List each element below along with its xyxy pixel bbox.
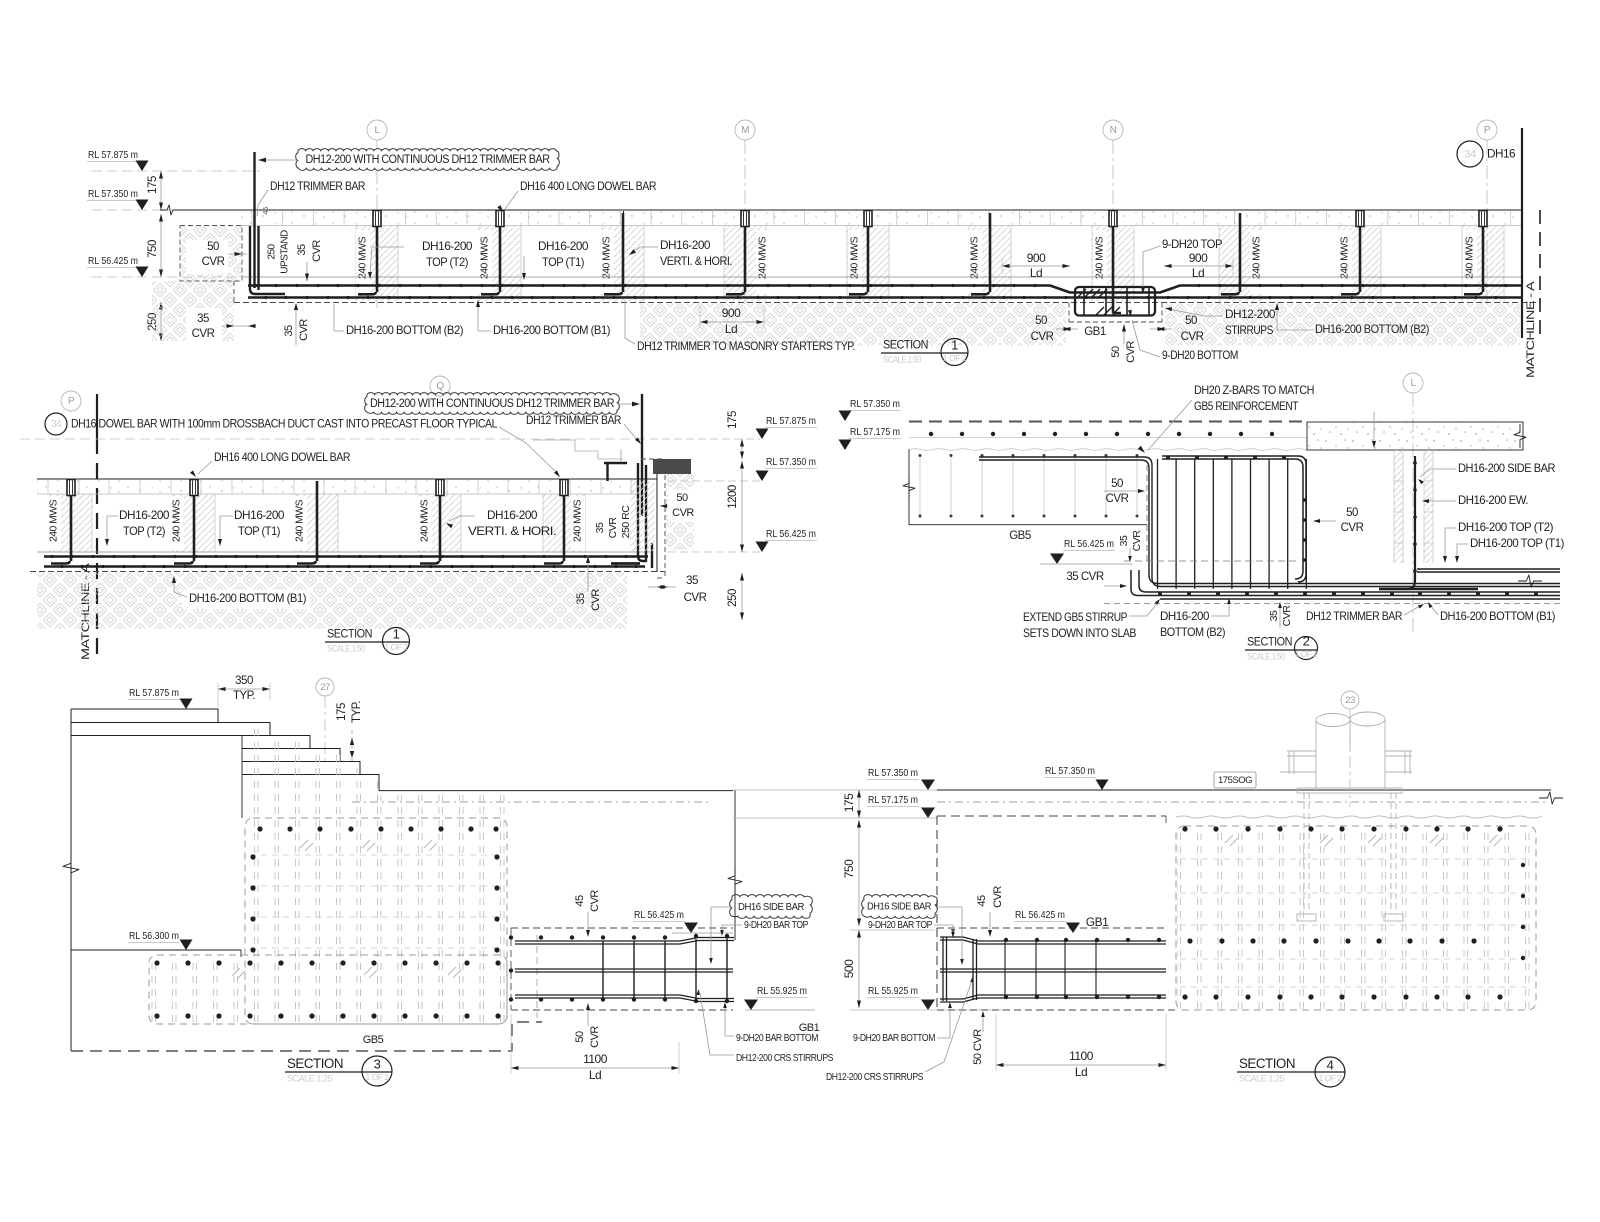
svg-text:1 OF 2: 1 OF 2 <box>943 353 967 363</box>
GB1 bottom bars (s4) <box>940 995 1166 999</box>
grid centerline M <box>744 140 746 308</box>
tall DH12 trimmer (1b) <box>641 394 643 516</box>
grid circle Q <box>430 376 450 396</box>
svg-text:GB5: GB5 <box>363 1034 384 1046</box>
masonry wall starter strips <box>356 226 398 302</box>
svg-text:DH12-200 WITH CONTINUOUS DH12: DH12-200 WITH CONTINUOUS DH12 TRIMMER BA… <box>306 154 550 166</box>
svg-text:DH12 TRIMMER BAR: DH12 TRIMMER BAR <box>526 413 622 427</box>
svg-text:GB1: GB1 <box>1086 915 1109 929</box>
svg-text:9-DH20 TOP: 9-DH20 TOP <box>1162 237 1222 251</box>
svg-text:35: 35 <box>594 522 606 533</box>
lap splice ticks <box>300 840 308 848</box>
svg-text:STIRRUPS: STIRRUPS <box>1225 323 1273 337</box>
level line RL 56.425 <box>92 276 240 278</box>
svg-text:DH16-200: DH16-200 <box>234 508 285 522</box>
svg-text:BOTTOM (B2): BOTTOM (B2) <box>1160 625 1225 639</box>
svg-text:SECTION: SECTION <box>883 338 928 352</box>
footing dots (s4) <box>1182 826 1525 999</box>
svg-text:50 CVR: 50 CVR <box>972 1029 984 1065</box>
svg-text:900: 900 <box>1189 251 1208 265</box>
svg-text:VERTI. & HORI.: VERTI. & HORI. <box>660 254 732 268</box>
stirrup top bar + right bend <box>1162 456 1306 582</box>
svg-text:CVR: CVR <box>1031 331 1054 343</box>
svg-text:SECTION: SECTION <box>1247 635 1292 649</box>
svg-text:240 MWS: 240 MWS <box>573 499 584 542</box>
svg-text:RL 57.350 m: RL 57.350 m <box>850 398 900 410</box>
grid centerline P <box>1486 140 1488 308</box>
svg-text:DH12 TRIMMER BAR: DH12 TRIMMER BAR <box>1306 609 1403 623</box>
svg-text:Ld: Ld <box>725 322 737 336</box>
cloud DH16 SIDE BAR (s3) <box>730 895 813 919</box>
svg-text:DH16 400 LONG DOWEL BAR: DH16 400 LONG DOWEL BAR <box>520 179 657 193</box>
precast floor unit (dark) <box>653 459 691 474</box>
dowel bars with L feet <box>376 227 379 292</box>
svg-text:1: 1 <box>951 337 958 352</box>
svg-text:SCALE.1:50: SCALE.1:50 <box>327 643 365 653</box>
slab soffit dashed <box>234 302 1540 304</box>
svg-text:TYP.: TYP. <box>233 690 255 702</box>
svg-text:DH16 SIDE BAR: DH16 SIDE BAR <box>738 901 805 913</box>
ref circle 34 + dowel note <box>45 413 67 435</box>
ground wavy line (s4) <box>1176 816 1542 818</box>
svg-text:35: 35 <box>686 575 698 587</box>
svg-text:45: 45 <box>574 895 586 907</box>
hardfill hatch under slab (middle) <box>640 304 1066 346</box>
steel column base assembly <box>1280 712 1412 921</box>
svg-text:1100: 1100 <box>583 1052 608 1066</box>
GB5 stirrups light <box>920 455 1137 516</box>
svg-text:SETS DOWN INTO SLAB: SETS DOWN INTO SLAB <box>1023 626 1136 640</box>
grid centerline L <box>376 140 378 149</box>
svg-text:240 MWS: 240 MWS <box>358 236 369 279</box>
left edge (s3) <box>70 709 72 1051</box>
svg-text:SCALE.1:50: SCALE.1:50 <box>883 354 921 364</box>
grid circle 23 <box>1341 691 1359 709</box>
bottom mat B1 bar (bottom layer) <box>248 296 1522 299</box>
dowel bars (1b) <box>70 496 73 561</box>
stirrup set U-hook <box>1131 570 1560 596</box>
level line RL 57.350 <box>92 209 176 211</box>
level line 57.875 (1b) <box>20 438 650 440</box>
bottom mat B2 bar (top layer) <box>248 286 1522 293</box>
dim 250 <box>160 302 162 341</box>
svg-text:DH16-200 TOP (T2): DH16-200 TOP (T2) <box>1458 520 1553 534</box>
svg-text:Ld: Ld <box>1192 266 1204 280</box>
matchline A (section 1b) <box>96 394 98 438</box>
svg-text:DH16-200: DH16-200 <box>119 508 170 522</box>
hardfill hatch (1b) <box>37 573 627 629</box>
9-DH20 top bars marks <box>1078 289 1086 297</box>
slab soffit dashed (1b) <box>30 571 665 573</box>
svg-text:CVR: CVR <box>607 517 619 539</box>
precast floor top line <box>175 209 1522 211</box>
top bars T1 T2 (s2) <box>1417 568 1560 570</box>
svg-text:P: P <box>1484 125 1491 136</box>
svg-text:750: 750 <box>147 240 159 258</box>
dim 175 <box>160 171 162 210</box>
svg-text:240 MWS: 240 MWS <box>1252 236 1263 279</box>
precast floor top line (1b) <box>37 478 657 480</box>
svg-text:175: 175 <box>727 411 739 429</box>
svg-text:35 CVR: 35 CVR <box>1066 571 1103 583</box>
svg-text:SCALE.1:25: SCALE.1:25 <box>287 1073 332 1083</box>
svg-text:240 MWS: 240 MWS <box>1465 236 1476 279</box>
svg-text:DH16-200 TOP (T1): DH16-200 TOP (T1) <box>1470 536 1564 550</box>
grid centerline N <box>1112 140 1114 308</box>
svg-text:SECTION: SECTION <box>1239 1056 1295 1071</box>
svg-text:240 MWS: 240 MWS <box>49 499 60 542</box>
svg-text:RL 57.875 m: RL 57.875 m <box>766 415 816 427</box>
svg-text:9-DH20 BAR TOP: 9-DH20 BAR TOP <box>868 919 932 931</box>
svg-text:RL 56.425 m: RL 56.425 m <box>766 528 816 540</box>
dowel bar 623 thin top <box>623 211 625 228</box>
dim 1100 Ld (s4) <box>996 1064 1166 1066</box>
svg-text:TYP.: TYP. <box>351 701 363 723</box>
svg-text:M: M <box>741 125 749 136</box>
svg-text:50: 50 <box>207 241 219 253</box>
svg-text:TOP (T1): TOP (T1) <box>238 524 280 538</box>
svg-text:DH12 TRIMMER BAR: DH12 TRIMMER BAR <box>270 179 366 193</box>
slab right edge <box>656 459 658 572</box>
svg-text:250: 250 <box>267 243 278 259</box>
GB1 bar dots (s3) <box>509 934 729 1003</box>
dim 1100 Ld (s3) <box>511 1067 679 1069</box>
seating cleat detail <box>604 462 627 464</box>
brick joints (1b) <box>48 480 631 494</box>
rebar dots <box>254 284 1507 299</box>
svg-text:175: 175 <box>147 176 159 194</box>
svg-text:240 MWS: 240 MWS <box>758 236 769 279</box>
svg-text:350: 350 <box>235 675 253 687</box>
svg-text:CVR: CVR <box>1131 530 1143 552</box>
svg-text:240 MWS: 240 MWS <box>602 236 613 279</box>
svg-text:CVR: CVR <box>1125 341 1137 363</box>
slab top surface line <box>242 276 1522 278</box>
svg-text:RL 57.350 m: RL 57.350 m <box>766 456 816 468</box>
svg-text:900: 900 <box>1027 251 1046 265</box>
svg-text:GB5: GB5 <box>1009 530 1031 542</box>
svg-text:DH16-200: DH16-200 <box>1160 609 1210 623</box>
svg-text:DH16: DH16 <box>1487 149 1515 161</box>
svg-text:1 OF 2: 1 OF 2 <box>1319 1073 1343 1083</box>
svg-text:1100: 1100 <box>1069 1049 1094 1063</box>
svg-text:DH16-200 BOTTOM (B1): DH16-200 BOTTOM (B1) <box>1440 609 1555 623</box>
svg-text:DH12-200 WITH CONTINUOUS DH12: DH12-200 WITH CONTINUOUS DH12 TRIMMER BA… <box>370 398 614 410</box>
bottom mat B2 (1b) <box>44 555 648 558</box>
svg-text:35: 35 <box>296 244 308 256</box>
upstand U-bar <box>250 226 285 294</box>
DH16-200 side bar <box>1379 456 1415 589</box>
svg-text:RL 57.875 m: RL 57.875 m <box>129 687 179 699</box>
svg-text:CVR: CVR <box>192 328 215 340</box>
svg-text:240 MWS: 240 MWS <box>970 236 981 279</box>
svg-text:240 MWS: 240 MWS <box>295 499 306 542</box>
cloud note DH12-200 WITH CONTINUOUS DH12 TRIMMER BAR <box>296 149 560 171</box>
svg-text:RL 55.925 m: RL 55.925 m <box>757 985 807 997</box>
SOG top line <box>937 789 1551 791</box>
svg-text:250 RC: 250 RC <box>620 505 632 539</box>
dim 750 <box>160 214 162 277</box>
svg-text:DH16-200: DH16-200 <box>422 239 473 253</box>
svg-text:27: 27 <box>320 682 330 693</box>
slab top surface (1b) <box>37 551 650 553</box>
svg-text:23: 23 <box>1345 695 1355 706</box>
brick joints <box>252 211 1511 225</box>
precast floor (s2) <box>1307 422 1523 450</box>
grid circle L <box>367 120 387 140</box>
svg-text:VERTI. & HORI.: VERTI. & HORI. <box>468 524 556 538</box>
masonry wall (s2) <box>1394 450 1403 563</box>
svg-text:DH16-200 SIDE BAR: DH16-200 SIDE BAR <box>1458 461 1556 475</box>
svg-text:CVR: CVR <box>1106 493 1129 505</box>
svg-text:DH16-200: DH16-200 <box>660 238 711 252</box>
svg-text:CVR: CVR <box>590 589 602 611</box>
GB1 beam dashed outline <box>1068 303 1070 323</box>
svg-text:3: 3 <box>374 1056 381 1071</box>
175SOG label <box>1214 772 1256 788</box>
wall cage dashed region <box>246 820 506 1020</box>
grid circle P <box>61 391 81 411</box>
svg-text:RL 56.300 m: RL 56.300 m <box>129 930 179 942</box>
step hatch guides <box>244 727 270 818</box>
svg-text:DH16-200 BOTTOM (B1): DH16-200 BOTTOM (B1) <box>493 323 610 337</box>
svg-text:34: 34 <box>1464 148 1476 160</box>
svg-text:175: 175 <box>336 703 348 721</box>
svg-text:500: 500 <box>842 959 856 978</box>
footing cage dashed region <box>150 957 507 1023</box>
svg-text:Q: Q <box>436 381 444 392</box>
svg-text:240 MWS: 240 MWS <box>172 499 183 542</box>
dim 900 Ld right of GB1 <box>1164 265 1233 267</box>
svg-text:DH16-200: DH16-200 <box>538 239 589 253</box>
soffit dashed (s2) <box>1104 603 1560 605</box>
svg-text:CVR: CVR <box>298 319 310 341</box>
dim 1200 right <box>741 461 743 552</box>
svg-text:240 MWS: 240 MWS <box>1340 236 1351 279</box>
svg-text:SCALE.1:25: SCALE.1:25 <box>1239 1073 1284 1083</box>
dim 350 TYP <box>218 688 270 690</box>
grid circle P <box>1477 120 1497 140</box>
svg-text:240 MWS: 240 MWS <box>480 236 491 279</box>
svg-text:CVR: CVR <box>1181 331 1204 343</box>
upstand U-bar right end <box>638 463 646 561</box>
svg-text:CVR: CVR <box>589 1026 601 1048</box>
SOG speckle line <box>937 801 1545 803</box>
svg-text:1 OF 2: 1 OF 2 <box>1295 649 1319 659</box>
svg-text:45: 45 <box>976 895 988 907</box>
svg-text:9-DH20 BOTTOM: 9-DH20 BOTTOM <box>1162 348 1238 362</box>
svg-text:DH16 400 LONG DOWEL BAR: DH16 400 LONG DOWEL BAR <box>214 450 351 464</box>
svg-text:35: 35 <box>283 325 295 337</box>
svg-text:RL 56.425 m: RL 56.425 m <box>1064 538 1114 550</box>
GB1 top bars (s4) <box>940 937 1166 941</box>
grid circle N <box>1103 120 1123 140</box>
svg-text:RL 57.350 m: RL 57.350 m <box>868 767 918 779</box>
stepped slab outline <box>71 709 218 723</box>
svg-text:RL 57.875 m: RL 57.875 m <box>88 149 138 161</box>
extended GB5 stirrups <box>1158 459 1307 589</box>
interface line (s3) <box>734 790 736 940</box>
svg-text:1200: 1200 <box>727 485 739 509</box>
svg-text:RL 57.175 m: RL 57.175 m <box>868 794 918 806</box>
svg-text:175SOG: 175SOG <box>1218 775 1252 786</box>
GB1 stirrups (s3) <box>602 941 604 999</box>
matchline A <box>1521 128 1523 338</box>
rebar dots (1b) <box>50 555 637 568</box>
svg-text:2: 2 <box>1303 633 1310 648</box>
excavation hatch block left <box>180 226 242 282</box>
svg-text:175: 175 <box>842 793 856 812</box>
GB1 mid bar (s4) <box>940 968 1166 970</box>
svg-text:900: 900 <box>722 306 741 320</box>
svg-text:CVR: CVR <box>311 240 323 262</box>
svg-text:RL 55.925 m: RL 55.925 m <box>868 985 918 997</box>
svg-text:35: 35 <box>1118 535 1130 546</box>
svg-text:MATCHLINE - A: MATCHLINE - A <box>1525 280 1537 378</box>
DPC speckle line (s3) <box>352 801 711 803</box>
ref circle 34 DH16 <box>1457 141 1483 167</box>
svg-text:SCALE.1:50: SCALE.1:50 <box>1247 651 1285 661</box>
svg-text:N: N <box>1110 125 1117 136</box>
GB1 dashed outline (s3) <box>511 927 733 929</box>
svg-text:Ld: Ld <box>589 1068 601 1082</box>
GB1 stirrups (s4) <box>942 937 944 1001</box>
svg-text:DH16-200 BOTTOM (B1): DH16-200 BOTTOM (B1) <box>189 591 306 605</box>
dim 900 Ld left of GB1 <box>1002 265 1070 267</box>
svg-text:4: 4 <box>1327 1057 1334 1072</box>
svg-text:DH12-200 CRS STIRRUPS: DH12-200 CRS STIRRUPS <box>826 1071 923 1083</box>
svg-text:UPSTAND: UPSTAND <box>280 230 291 274</box>
masonry strips (1b) <box>50 495 92 553</box>
svg-text:50: 50 <box>574 1031 586 1043</box>
svg-text:RL 57.350 m: RL 57.350 m <box>88 188 138 200</box>
svg-text:9-DH20 BAR BOTTOM: 9-DH20 BAR BOTTOM <box>736 1032 818 1044</box>
GB1 top bars (s3) <box>515 938 734 942</box>
svg-text:RL 57.350 m: RL 57.350 m <box>1045 765 1095 777</box>
svg-text:1 OF 2: 1 OF 2 <box>366 1072 390 1082</box>
svg-text:RL 56.425 m: RL 56.425 m <box>88 255 138 267</box>
svg-text:1 OF 2: 1 OF 2 <box>385 642 409 652</box>
GB1 outline dashed (s4) <box>937 815 1166 817</box>
svg-text:CVR: CVR <box>589 890 601 912</box>
svg-text:50: 50 <box>676 492 688 504</box>
GB1 bottom bars (s3) <box>515 995 734 999</box>
brick joint line <box>240 225 1522 227</box>
svg-text:50: 50 <box>1185 315 1197 327</box>
svg-text:EXTEND GB5 STIRRUP: EXTEND GB5 STIRRUP <box>1023 610 1127 624</box>
svg-text:TOP (T1): TOP (T1) <box>542 255 584 269</box>
svg-text:SECTION: SECTION <box>287 1056 343 1071</box>
svg-text:9-DH20 BAR BOTTOM: 9-DH20 BAR BOTTOM <box>853 1032 935 1044</box>
svg-text:CVR: CVR <box>684 592 707 604</box>
svg-text:1: 1 <box>393 626 400 641</box>
svg-text:SECTION: SECTION <box>327 627 372 641</box>
svg-text:P: P <box>68 396 75 407</box>
svg-text:DH12-200 CRS STIRRUPS: DH12-200 CRS STIRRUPS <box>736 1052 833 1064</box>
level line RL 57.875 <box>92 170 260 172</box>
svg-text:RL 57.175 m: RL 57.175 m <box>850 426 900 438</box>
grid circle M <box>735 120 755 140</box>
DH12 trimmer bar <box>253 152 255 288</box>
svg-text:DH16-200 BOTTOM (B2): DH16-200 BOTTOM (B2) <box>346 323 463 337</box>
lap ticks (s4) <box>1225 835 1233 843</box>
svg-text:Ld: Ld <box>1075 1065 1087 1079</box>
svg-text:35: 35 <box>575 593 587 605</box>
svg-text:RL 56.425 m: RL 56.425 m <box>634 909 684 921</box>
svg-text:GB5 REINFORCEMENT: GB5 REINFORCEMENT <box>1194 399 1299 413</box>
GB5 top bar dots <box>929 432 1274 436</box>
cloud DH16 SIDE BAR (s4) <box>862 895 938 919</box>
svg-text:DH16-200: DH16-200 <box>487 508 538 522</box>
excavation hatch below left edge <box>152 281 234 341</box>
svg-text:DH12 TRIMMER TO MASONRY STARTE: DH12 TRIMMER TO MASONRY STARTERS TYP. <box>637 339 855 353</box>
svg-text:CVR: CVR <box>992 886 1004 908</box>
hatch soil right of edge <box>666 474 694 550</box>
svg-text:CVR: CVR <box>202 256 225 268</box>
cage dots (s3) <box>154 826 500 1018</box>
svg-text:DH16-200 BOTTOM (B2): DH16-200 BOTTOM (B2) <box>1315 322 1429 336</box>
svg-text:240 MWS: 240 MWS <box>1095 236 1106 279</box>
svg-text:240 MWS: 240 MWS <box>420 499 431 542</box>
svg-text:240 MWS: 240 MWS <box>850 236 861 279</box>
svg-text:750: 750 <box>842 859 856 878</box>
grid circle 27 <box>316 678 334 696</box>
DH20 Z-bar <box>979 457 1560 587</box>
GB1 stirrup cage <box>1075 287 1155 316</box>
dim 900 Ld below slab <box>700 321 764 323</box>
B1 bar line (s2) <box>1160 598 1560 600</box>
svg-text:CVR: CVR <box>1281 605 1293 627</box>
footing cage (s4) <box>1177 827 1535 1009</box>
svg-text:DH16 DOWEL BAR WITH 100mm DROS: DH16 DOWEL BAR WITH 100mm DROSSBACH DUCT… <box>71 417 498 431</box>
svg-text:CVR: CVR <box>672 507 694 519</box>
GB1 bar dots (s4) <box>1004 938 1161 999</box>
svg-text:TOP (T2): TOP (T2) <box>426 255 468 269</box>
level lines 57.350 / 57.175 <box>733 789 937 791</box>
cage dots (s2) <box>1158 456 1538 596</box>
dim 175 right <box>741 439 743 459</box>
svg-text:50: 50 <box>1111 478 1123 490</box>
svg-text:35: 35 <box>1268 610 1280 621</box>
svg-text:9-DH20 BAR TOP: 9-DH20 BAR TOP <box>744 919 808 931</box>
GB1 mid bar (s3) <box>515 968 733 970</box>
GB5 beam elevation <box>908 449 910 525</box>
svg-text:RL 56.425 m: RL 56.425 m <box>1015 909 1065 921</box>
grid circle L (s2) <box>1403 373 1423 393</box>
svg-text:DH20 Z-BARS TO MATCH: DH20 Z-BARS TO MATCH <box>1194 383 1314 397</box>
TOC dashed bold line <box>909 421 1307 423</box>
excavation line (s3) <box>71 1022 542 1051</box>
cloud note (1b) <box>365 393 620 415</box>
svg-text:50: 50 <box>1110 346 1122 358</box>
svg-text:50: 50 <box>1035 315 1047 327</box>
svg-text:50: 50 <box>1346 507 1358 519</box>
svg-text:34: 34 <box>51 419 62 430</box>
svg-text:Ld: Ld <box>1030 266 1042 280</box>
dim 250 right <box>741 573 743 620</box>
svg-text:DH16 SIDE BAR: DH16 SIDE BAR <box>867 902 931 913</box>
hatch RC wall <box>630 481 655 551</box>
hardfill hatch under slab (right) <box>1165 304 1520 346</box>
svg-text:TOP (T2): TOP (T2) <box>123 524 165 538</box>
svg-text:45: 45 <box>261 207 270 215</box>
svg-text:CVR: CVR <box>1341 522 1364 534</box>
svg-text:35: 35 <box>197 313 209 325</box>
svg-text:250: 250 <box>727 589 739 607</box>
svg-text:GB1: GB1 <box>1084 326 1106 338</box>
bottom mat B1 (1b) <box>44 565 645 568</box>
svg-text:DH12-200: DH12-200 <box>1225 307 1276 321</box>
